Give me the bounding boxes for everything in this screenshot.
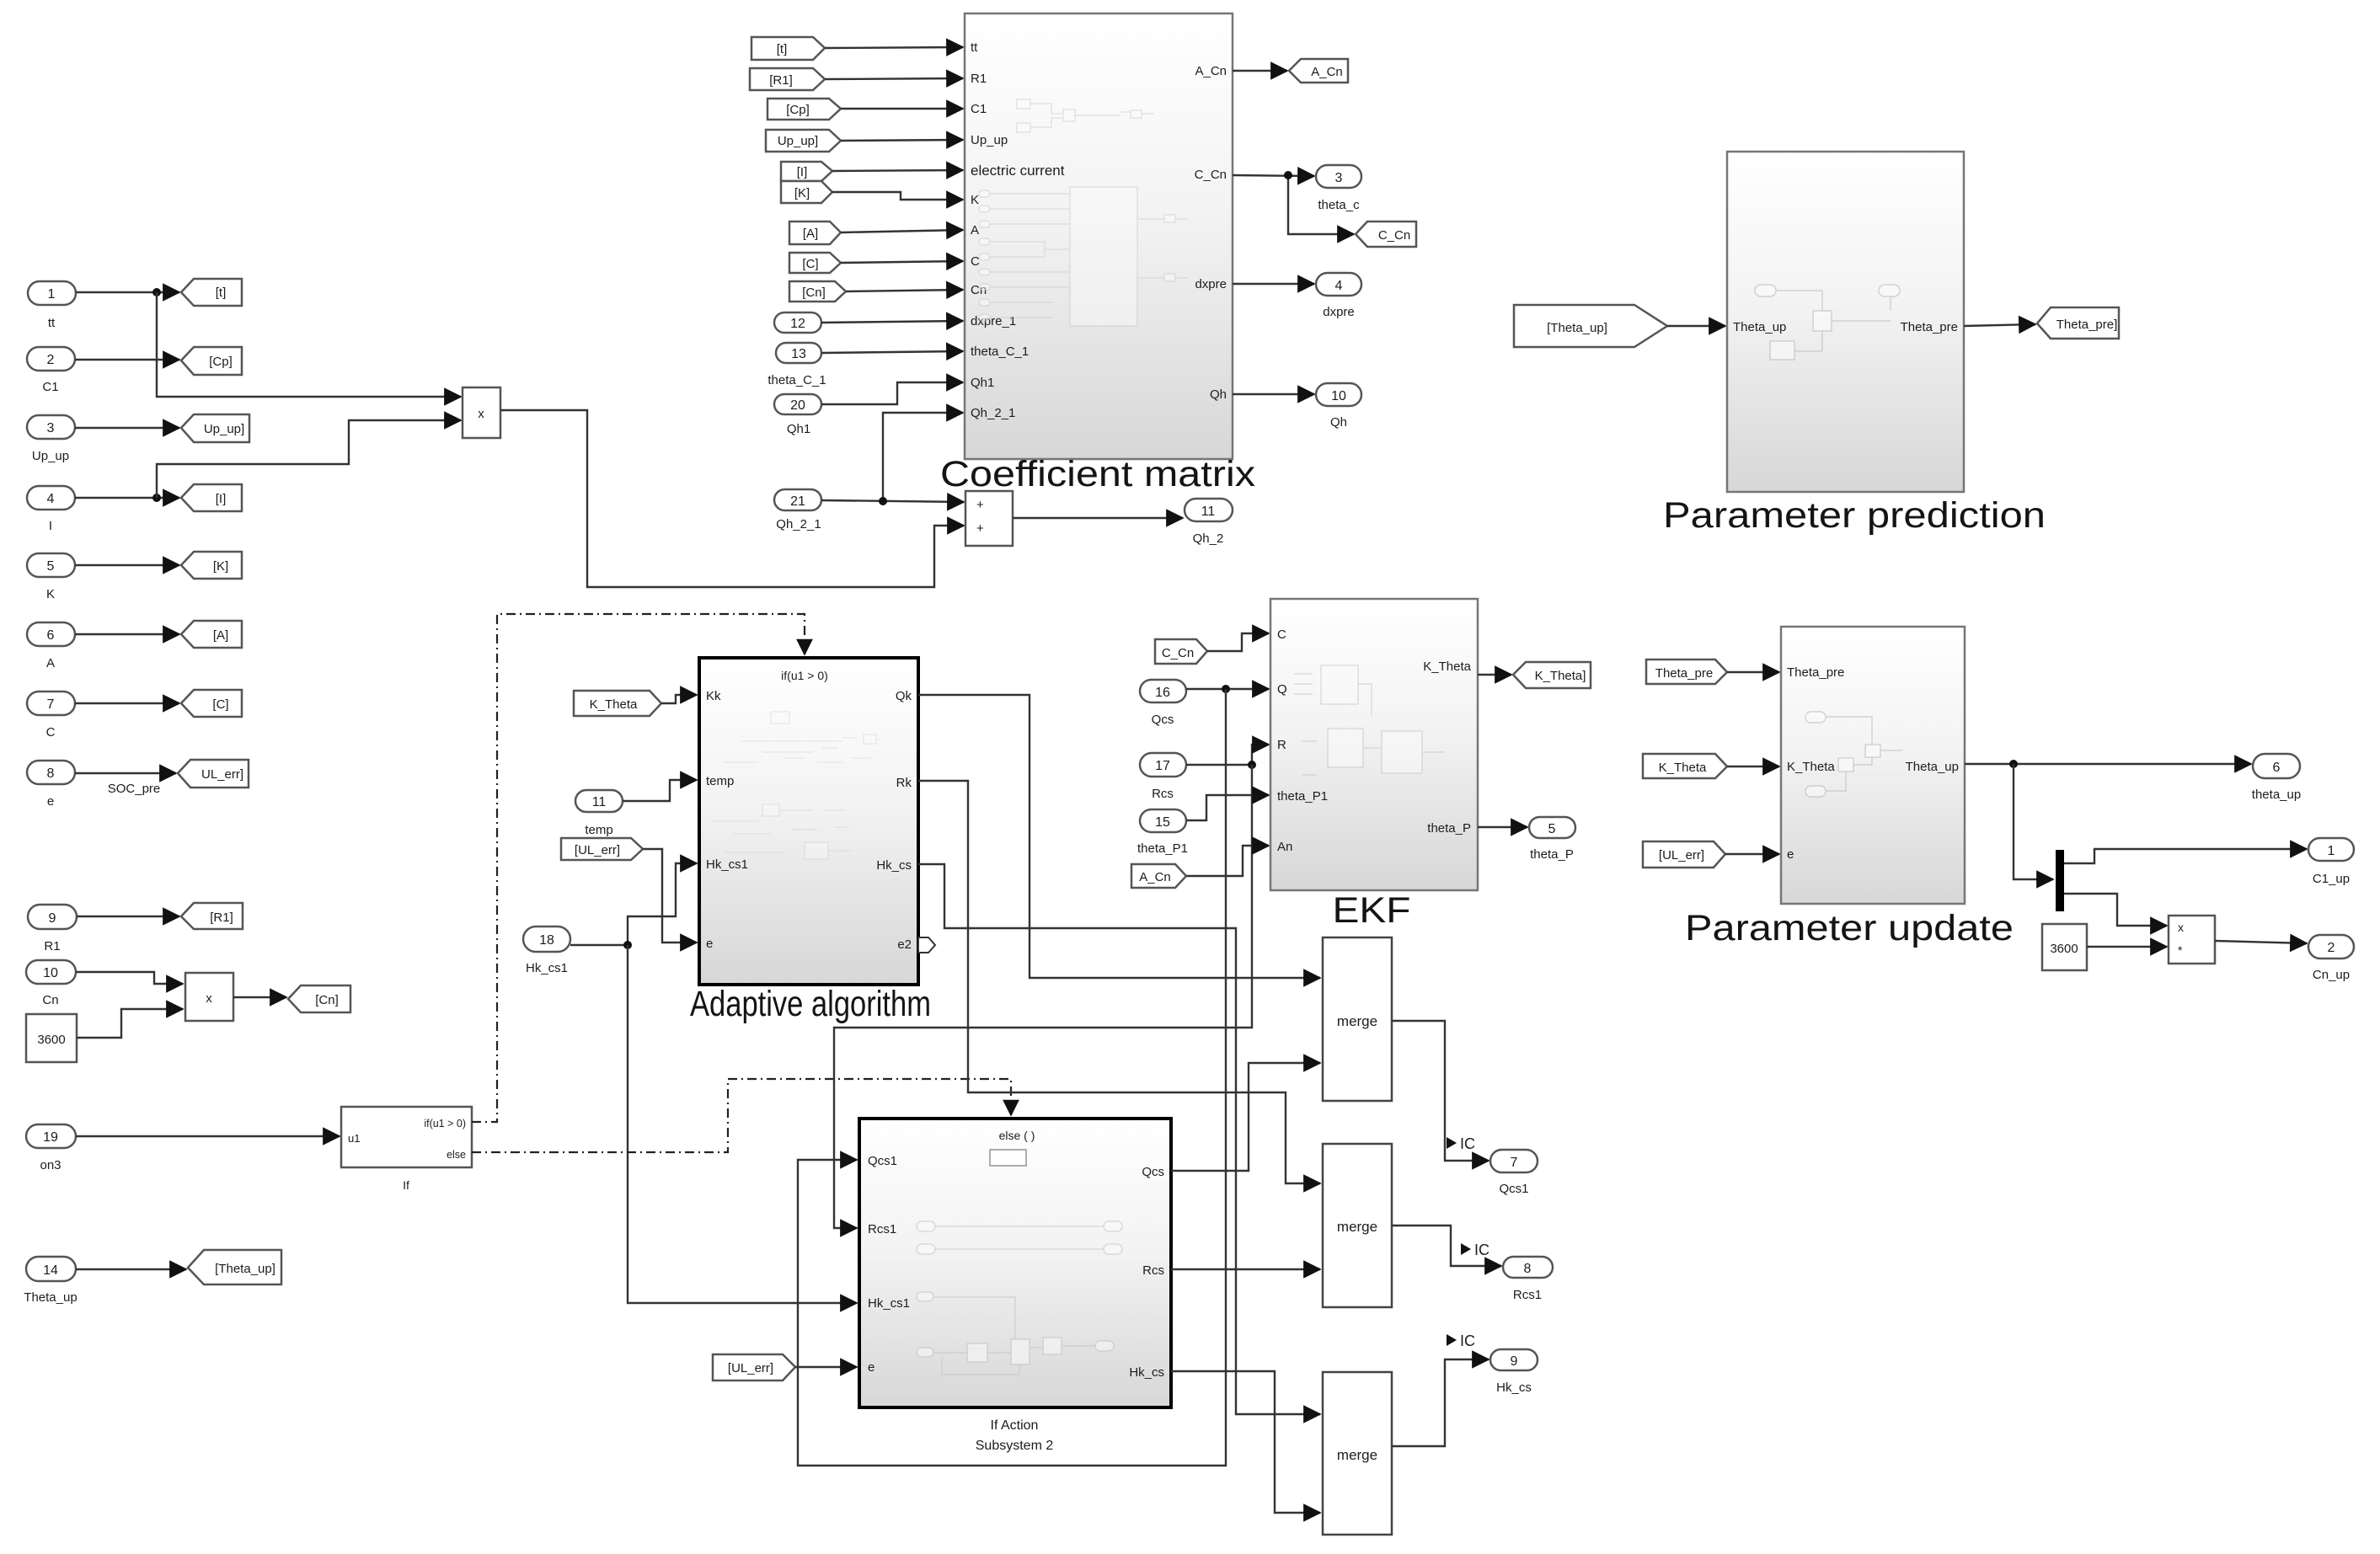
from tag [I] (coeff input) <box>781 162 832 181</box>
svg-text:1: 1 <box>48 287 56 302</box>
svg-text:[Cp]: [Cp] <box>209 355 233 369</box>
wire port12 to coeff dxpre_1 <box>821 321 963 323</box>
if action else rect <box>990 1150 1026 1166</box>
wire port21 to sum in1 and branch up to coeff Qh_2_1 <box>821 413 964 505</box>
subsystem Parameter update <box>1781 627 1965 904</box>
wire [UL_err] to adaptive e <box>643 849 697 943</box>
svg-text:10: 10 <box>43 966 58 980</box>
constant 3600 (param update) <box>2042 924 2087 970</box>
svg-text:merge: merge <box>1337 1447 1377 1463</box>
wire product3 to port2 <box>2215 941 2307 943</box>
outport 3 (theta_c) <box>1316 165 1361 212</box>
svg-text:15: 15 <box>1155 815 1170 830</box>
wire adaptive Qk to merge1 in1 <box>918 695 1320 978</box>
IC annotation port7 <box>1447 1135 1475 1152</box>
from tag [C_Cn] (EKF input) <box>1155 639 1207 664</box>
wire Rcs feedback down to If Action Rcs1 <box>834 765 1252 1228</box>
svg-text:IC: IC <box>1474 1242 1490 1258</box>
constant 3600 (left) <box>26 1014 77 1062</box>
wire port9 to [R1] <box>77 916 179 917</box>
svg-text:merge: merge <box>1337 1013 1377 1029</box>
wire port18 junction to adaptive Hk_cs1 <box>570 863 697 949</box>
svg-text:Rcs: Rcs <box>1152 787 1174 801</box>
from tag [Up_up] (coeff input) <box>766 130 841 152</box>
outport 10 (Qh) <box>1316 383 1361 430</box>
svg-text:5: 5 <box>47 559 55 574</box>
wire EKF theta_P to port5 <box>1478 826 1527 828</box>
svg-text:K: K <box>971 193 979 207</box>
wire branch port1 to product1 in1 <box>157 292 461 397</box>
svg-text:Theta_pre: Theta_pre <box>1787 665 1844 680</box>
svg-text:6: 6 <box>2273 761 2281 775</box>
subsystem EKF <box>1270 599 1478 890</box>
svg-text:theta_P: theta_P <box>1530 847 1574 862</box>
wire Qcs feedback down to If Action Qcs1 <box>798 689 1226 1466</box>
svg-text:dxpre: dxpre <box>1323 305 1355 319</box>
svg-text:Hk_cs1: Hk_cs1 <box>706 857 748 872</box>
svg-text:Qh1: Qh1 <box>971 376 994 390</box>
svg-text:Theta_up: Theta_up <box>1733 320 1786 334</box>
label Coefficient matrix <box>940 454 1256 494</box>
svg-text:17: 17 <box>1155 759 1170 773</box>
sum block <box>965 491 1013 546</box>
inport 1 (tt) <box>28 281 76 330</box>
svg-text:C: C <box>46 725 56 740</box>
wire port3 to [Up_up] <box>75 427 179 429</box>
inport 5 (K) <box>27 553 75 601</box>
wire port7 to [C] <box>75 702 179 704</box>
svg-text:Qk: Qk <box>896 689 912 703</box>
from tag [K_Theta] (param update input) <box>1643 754 1727 778</box>
inport 2 (C1) <box>27 347 75 394</box>
from tag [R1] (coeff input) <box>750 68 825 90</box>
svg-text:[UL_err]: [UL_err] <box>1659 848 1704 862</box>
coeff preview sketch <box>979 99 1188 326</box>
outport 1 (C1_up) <box>2308 838 2354 886</box>
wire port6 to [A] <box>75 633 179 635</box>
wire if action Qcs to merge1 in2 <box>1171 1063 1320 1171</box>
goto tag [Theta_pre] <box>2037 307 2119 339</box>
adaptive e2 output glyph <box>918 937 935 953</box>
goto tag [A] <box>181 621 242 648</box>
wire port10 to product2 <box>76 972 183 984</box>
goto tag [Up_up] <box>181 414 249 442</box>
svg-text:else: else <box>447 1149 466 1161</box>
wire port1 to [t] <box>76 288 179 296</box>
dashdot else wire to if action <box>472 1079 1011 1152</box>
svg-text:[C]: [C] <box>802 257 818 271</box>
wire product2 to [Cn] <box>233 996 286 998</box>
svg-text:Parameter prediction: Parameter prediction <box>1663 495 2046 536</box>
svg-text:Qcs1: Qcs1 <box>868 1154 897 1168</box>
adaptive preview sketch <box>712 712 880 859</box>
svg-text:Qcs: Qcs <box>1142 1165 1164 1179</box>
from tag [C] (coeff input) <box>789 253 841 273</box>
from tag [UL_err] (param update input) <box>1643 841 1725 868</box>
svg-text:Rk: Rk <box>896 776 912 790</box>
svg-text:theta_P1: theta_P1 <box>1277 789 1328 804</box>
wire [Theta_up] to parameter prediction <box>1667 325 1725 327</box>
svg-text:e2: e2 <box>897 937 912 952</box>
goto tag [C] <box>181 690 242 717</box>
svg-text:3: 3 <box>47 421 55 435</box>
from tag [K_Theta] (adaptive input) <box>574 691 661 716</box>
svg-text:[t]: [t] <box>216 286 227 300</box>
wire [C] to coeff C <box>841 261 963 263</box>
svg-text:C1_up: C1_up <box>2313 872 2350 886</box>
svg-text:[R1]: [R1] <box>210 911 233 925</box>
product block x (left) <box>185 973 233 1021</box>
from tag [UL_err] (adaptive input) <box>561 838 643 860</box>
wire [Cn] to coeff Cn <box>846 290 963 291</box>
svg-text:3600: 3600 <box>2050 942 2078 956</box>
wire port4 to [I] <box>75 494 179 502</box>
svg-text:+: + <box>976 521 984 536</box>
wire param update Theta_up to port6 with junction <box>1965 760 2251 768</box>
svg-text:C: C <box>1277 627 1286 642</box>
inport 17 (Rcs) <box>1140 753 1186 801</box>
wire coeff Qh to port10 <box>1233 393 1314 395</box>
goto tag [I] <box>181 484 242 511</box>
from tag [A_Cn] (EKF input) <box>1131 864 1186 888</box>
wire port20 to coeff Qh1 <box>821 382 963 404</box>
from tag [Theta_pre] (param update input) <box>1646 660 1727 684</box>
goto tag [K_Theta] <box>1513 662 1591 688</box>
svg-text:Subsystem 2: Subsystem 2 <box>976 1439 1054 1453</box>
svg-text:19: 19 <box>43 1130 58 1145</box>
svg-text:on3: on3 <box>40 1158 61 1172</box>
wire [C_Cn] to EKF C <box>1207 633 1269 651</box>
svg-text:13: 13 <box>791 347 806 361</box>
wire [I] to coeff electric current <box>832 170 963 171</box>
inport 7 (C) <box>27 692 75 740</box>
inport 10 (Cn) <box>26 960 76 1007</box>
svg-text:dxpre: dxpre <box>1195 277 1227 291</box>
svg-text:8: 8 <box>47 766 55 781</box>
svg-text:[Theta_up]: [Theta_up] <box>1547 321 1607 335</box>
svg-text:K_Theta: K_Theta <box>1659 761 1707 775</box>
svg-text:R: R <box>1277 738 1286 752</box>
svg-text:electric current: electric current <box>971 163 1065 179</box>
wire port18 down to If Action Hk_cs1 <box>628 945 857 1303</box>
svg-text:Kk: Kk <box>706 689 721 703</box>
svg-text:Rcs: Rcs <box>1142 1263 1164 1278</box>
svg-text:Qh_2_1: Qh_2_1 <box>776 517 821 531</box>
wire port13 to coeff theta_C_1 <box>821 351 963 353</box>
subsystem Parameter prediction <box>1727 152 1964 492</box>
svg-text:theta_c: theta_c <box>1318 198 1360 212</box>
label Parameter prediction <box>1663 495 2046 536</box>
dashdot if(u1>0) wire to adaptive <box>472 614 805 1122</box>
svg-text:Parameter update: Parameter update <box>1685 908 2014 948</box>
wire coeff A_Cn to [A_Cn] <box>1233 70 1287 72</box>
inport 6 (A) <box>27 622 75 670</box>
outport 2 (Cn_up) <box>2308 935 2354 982</box>
svg-text:Theta_up: Theta_up <box>1906 760 1959 774</box>
merge block 3 <box>1323 1372 1392 1535</box>
wire [K_Theta] to param update <box>1727 766 1779 767</box>
svg-text:K_Theta: K_Theta <box>590 697 638 712</box>
product block x (top) <box>463 387 500 438</box>
wire merge1 to port7 <box>1392 1021 1489 1161</box>
svg-text:[A]: [A] <box>213 628 228 643</box>
inport 12 <box>774 312 821 333</box>
from tag [A] (coeff input) <box>789 222 841 244</box>
product block (param update) <box>2169 916 2215 964</box>
svg-text:theta_up: theta_up <box>2252 788 2301 802</box>
outport 11 (Qh_2) <box>1185 499 1233 546</box>
svg-text:Theta_pre]: Theta_pre] <box>2056 318 2118 332</box>
svg-text:tt: tt <box>971 40 978 55</box>
wire coeff C_Cn to port3 and [C_Cn] <box>1233 171 1354 234</box>
svg-text:Theta_up: Theta_up <box>24 1290 77 1305</box>
EKF preview sketch <box>1294 665 1444 775</box>
from tag [t] (coeff input) <box>751 37 825 60</box>
svg-text:I: I <box>49 519 52 533</box>
wire if action Rcs to merge2 in2 <box>1171 1268 1320 1270</box>
svg-text:[I]: [I] <box>216 492 227 506</box>
wire port8 to [UL_err] with label SOC_pre <box>75 773 176 796</box>
svg-text:Cn_up: Cn_up <box>2313 968 2350 982</box>
svg-text:e: e <box>1787 847 1794 862</box>
svg-text:SOC_pre: SOC_pre <box>108 782 161 796</box>
param update preview sketch <box>1805 712 1902 797</box>
svg-text:Qcs: Qcs <box>1152 713 1174 727</box>
from tag [UL_err] (if action input) <box>713 1354 795 1380</box>
goto tag [R1] <box>181 903 243 929</box>
wire port19 to If block <box>76 1135 340 1137</box>
wire [K_Theta] to adaptive Kk <box>661 695 697 703</box>
svg-text:e: e <box>706 937 713 951</box>
svg-text:2: 2 <box>2328 941 2335 955</box>
inport 14 (Theta_up) <box>24 1257 77 1305</box>
wire [K] to coeff K <box>832 192 963 200</box>
svg-text:11: 11 <box>1201 505 1216 519</box>
svg-text:1: 1 <box>2328 844 2335 858</box>
from tag [Cp] (coeff input) <box>767 99 841 120</box>
svg-text:18: 18 <box>539 933 554 948</box>
goto tag [Cp] <box>181 347 242 375</box>
svg-text:A_Cn: A_Cn <box>1139 870 1171 884</box>
svg-text:temp: temp <box>585 823 612 837</box>
svg-text:3: 3 <box>1335 171 1343 185</box>
svg-text:Qh1: Qh1 <box>787 422 810 436</box>
wire merge3 to port9 <box>1392 1359 1489 1446</box>
inport 13 (theta_C_1) <box>767 343 826 387</box>
wire 3600 to product3 <box>2087 946 2167 948</box>
svg-text:14: 14 <box>43 1263 58 1278</box>
svg-text:[Cp]: [Cp] <box>786 103 810 117</box>
svg-text:21: 21 <box>790 494 805 509</box>
svg-text:Hk_cs1: Hk_cs1 <box>868 1296 910 1311</box>
svg-text:[I]: [I] <box>797 165 808 179</box>
wire if action Hk_cs to merge3 in2 <box>1171 1371 1320 1513</box>
wire coeff dxpre to port4 <box>1233 283 1314 285</box>
svg-text:4: 4 <box>1335 279 1343 293</box>
svg-text:3600: 3600 <box>37 1033 65 1047</box>
svg-text:Hk_cs1: Hk_cs1 <box>526 961 568 975</box>
goto tag [A_Cn] <box>1289 59 1348 83</box>
outport 8 (Rcs1) <box>1503 1257 1553 1302</box>
goto tag [Theta_up] <box>188 1250 281 1284</box>
svg-text:[UL_err]: [UL_err] <box>728 1361 773 1375</box>
svg-text:C1: C1 <box>42 380 58 394</box>
svg-text:x: x <box>206 991 212 1006</box>
svg-text:temp: temp <box>706 774 734 788</box>
svg-text:Qh: Qh <box>1210 387 1227 402</box>
inport 19 (on3) <box>26 1124 76 1172</box>
svg-text:Hk_cs: Hk_cs <box>1129 1365 1164 1380</box>
svg-text:else ( ): else ( ) <box>999 1129 1035 1142</box>
If block <box>341 1107 472 1192</box>
goto tag [K] <box>181 552 242 579</box>
IC annotation port9 <box>1447 1332 1475 1349</box>
wire product1 to sum <box>500 410 964 587</box>
svg-text:Qcs1: Qcs1 <box>1499 1182 1528 1196</box>
svg-text:4: 4 <box>47 492 55 506</box>
wire [UL_err] to param update e <box>1725 853 1779 855</box>
svg-text:e: e <box>47 794 54 809</box>
svg-text:Up_up]: Up_up] <box>778 134 818 148</box>
label If Action Subsystem 2 <box>976 1418 1054 1453</box>
wire port2 to [Cp] <box>75 359 179 360</box>
svg-text:tt: tt <box>48 316 56 330</box>
svg-text:x: x <box>2178 921 2184 934</box>
svg-text:5: 5 <box>1548 822 1556 836</box>
wire port14 to [Theta_up] <box>76 1268 186 1270</box>
wire junction down to demux <box>2014 764 2053 879</box>
svg-text:C_Cn: C_Cn <box>1378 228 1410 243</box>
svg-text:K_Theta: K_Theta <box>1423 660 1471 674</box>
wire [t] to coeff tt <box>825 47 963 48</box>
wire port5 to [K] <box>75 564 179 566</box>
wire demux out2 to product3 <box>2064 894 2167 926</box>
outport 4 (dxpre) <box>1316 273 1361 319</box>
svg-text:16: 16 <box>1155 686 1170 700</box>
outport 6 (theta_up) <box>2252 754 2301 802</box>
inport 11dup (temp source) <box>575 790 623 837</box>
parameter prediction preview sketch <box>1755 285 1900 360</box>
svg-text:R1: R1 <box>971 72 987 86</box>
svg-text:EKF: EKF <box>1333 890 1411 931</box>
label Adaptive algorithm <box>690 984 931 1024</box>
svg-text:C_Cn: C_Cn <box>1195 168 1227 182</box>
demux bar <box>2056 850 2064 911</box>
svg-text:[C]: [C] <box>212 697 228 712</box>
svg-text:e: e <box>868 1360 874 1375</box>
svg-text:if(u1 > 0): if(u1 > 0) <box>424 1118 466 1129</box>
wire [Theta_pre] to param update <box>1727 671 1779 673</box>
svg-text:R1: R1 <box>44 939 60 953</box>
inport 8 (e) <box>27 761 75 809</box>
svg-text:20: 20 <box>790 398 805 413</box>
wire 3600 to product2 <box>77 1009 183 1038</box>
svg-text:[t]: [t] <box>777 42 788 56</box>
svg-text:Rcs1: Rcs1 <box>868 1222 896 1236</box>
svg-text:An: An <box>1277 840 1292 854</box>
wire [A] to coeff A <box>841 230 963 232</box>
svg-text:Qh: Qh <box>1330 415 1347 430</box>
svg-text:[Cn]: [Cn] <box>802 286 826 300</box>
svg-text:[R1]: [R1] <box>769 73 793 88</box>
wire sum to port11 <box>1013 517 1183 519</box>
wire EKF K_Theta to [K_Theta] <box>1478 674 1511 676</box>
svg-text:If: If <box>403 1178 409 1192</box>
svg-text:*: * <box>2178 943 2183 957</box>
svg-text:Hk_cs: Hk_cs <box>876 858 912 873</box>
wire parameter prediction to [Theta_pre] <box>1964 324 2035 326</box>
wire adaptive Hk_cs to merge3 in1 <box>918 864 1320 1414</box>
goto tag [t] <box>181 279 242 306</box>
svg-text:12: 12 <box>790 317 805 331</box>
svg-text:2: 2 <box>47 353 55 367</box>
svg-text:+: + <box>976 498 984 512</box>
wire adaptive Rk to merge2 in1 <box>918 781 1320 1183</box>
wire [Up_up] to coeff Up_up <box>841 140 963 141</box>
svg-text:theta_C_1: theta_C_1 <box>767 373 826 387</box>
svg-text:Theta_pre: Theta_pre <box>1655 666 1713 681</box>
inport 20 (Qh1) <box>774 394 821 436</box>
svg-text:[K]: [K] <box>794 186 810 200</box>
inport 21 (Qh_2_1) <box>774 489 821 531</box>
svg-text:IC: IC <box>1460 1135 1475 1152</box>
svg-text:A: A <box>971 223 979 238</box>
wire [Cp] to coeff C1 <box>841 108 963 109</box>
svg-text:u1: u1 <box>348 1132 360 1145</box>
wire merge2 to port8 <box>1392 1226 1501 1266</box>
wire branch port4 to product1 in2 <box>157 420 461 498</box>
svg-text:x: x <box>478 407 484 421</box>
inport 18 (Hk_cs1) <box>523 927 570 975</box>
svg-text:merge: merge <box>1337 1219 1377 1235</box>
svg-text:theta_C_1: theta_C_1 <box>971 344 1029 359</box>
label Parameter update <box>1685 908 2014 948</box>
outport 7 (Qcs1) <box>1490 1150 1538 1196</box>
wire [R1] to coeff R1 <box>825 78 963 79</box>
svg-text:Adaptive algorithm: Adaptive algorithm <box>690 984 931 1024</box>
IC annotation port8 <box>1461 1242 1490 1258</box>
subsystem If Action Subsystem 2 <box>859 1119 1171 1407</box>
inport 3 (Up_up) <box>27 415 75 463</box>
svg-text:Cn: Cn <box>42 993 58 1007</box>
svg-text:Coefficient matrix: Coefficient matrix <box>940 454 1256 494</box>
svg-text:K_Theta: K_Theta <box>1787 760 1835 774</box>
svg-text:Rcs1: Rcs1 <box>1513 1288 1542 1302</box>
svg-text:C1: C1 <box>971 102 987 116</box>
label EKF <box>1333 890 1411 931</box>
svg-text:A_Cn: A_Cn <box>1311 65 1343 79</box>
inport 15 (theta_P1) <box>1137 809 1188 856</box>
svg-text:11: 11 <box>592 795 607 809</box>
merge block 2 <box>1323 1144 1392 1307</box>
wire port11 to adaptive temp <box>623 780 697 801</box>
svg-text:9: 9 <box>49 911 56 926</box>
svg-text:6: 6 <box>47 628 55 643</box>
svg-text:if(u1 > 0): if(u1 > 0) <box>781 669 828 682</box>
svg-text:[A]: [A] <box>803 227 818 241</box>
wire port17 to EKF R with junction <box>1186 745 1269 769</box>
svg-text:Up_up: Up_up <box>32 449 69 463</box>
svg-text:10: 10 <box>1331 389 1346 403</box>
outport 5 (theta_P) <box>1529 817 1575 862</box>
inport 4 (I) <box>27 486 75 533</box>
svg-text:IC: IC <box>1460 1332 1475 1349</box>
wire port16 to EKF Q with junction <box>1186 685 1269 693</box>
svg-text:UL_err]: UL_err] <box>201 767 243 782</box>
inport 9 (R1) <box>28 905 77 953</box>
svg-text:C_Cn: C_Cn <box>1162 646 1194 660</box>
goto tag [C_Cn] <box>1356 222 1416 247</box>
